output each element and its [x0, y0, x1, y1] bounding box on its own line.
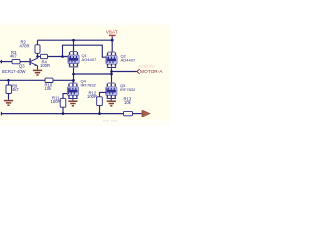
node junction Q1 drain	[72, 73, 75, 76]
svg-text:100R: 100R	[40, 63, 50, 68]
wire: top VBAT rail	[38, 39, 112, 41]
resistor R12	[97, 97, 103, 106]
svg-text:AO4407: AO4407	[82, 57, 97, 62]
wire: Q4 gate to R11	[63, 94, 67, 99]
wire: R13 to arrow port	[133, 113, 142, 115]
power port arrow	[142, 110, 143, 117]
svg-text:Designator: Designator	[139, 65, 156, 69]
wire: R4 to Q1 gate	[48, 56, 69, 58]
wire: bridge link	[74, 73, 112, 75]
mosfet Q5 IRF7832	[106, 83, 117, 99]
node junction R2/R4/Q3 collector	[36, 55, 39, 58]
transistor Q3 BCR17-40W	[29, 58, 30, 65]
node junction R10/drain	[72, 79, 75, 82]
wire: Q5 gate to R12	[100, 92, 106, 96]
svg-text:470R: 470R	[20, 43, 30, 48]
svg-text:10k: 10k	[124, 100, 132, 105]
node junction R11 bus	[62, 112, 65, 115]
svg-text:4k7: 4k7	[12, 87, 19, 92]
wire: input to Q3 base	[0, 61, 12, 63]
svg-text:100R: 100R	[51, 99, 61, 104]
node junction R9	[7, 79, 10, 82]
mosfet Q1 AO4407	[68, 51, 79, 67]
resistor R9	[8, 80, 10, 85]
svg-text:100R: 100R	[87, 94, 97, 99]
ground under Q3	[33, 70, 42, 75]
resistor R10	[45, 78, 53, 82]
wire: rail to Q1 source	[73, 40, 75, 51]
ground under R9	[4, 101, 13, 106]
node junction Q2 drain link	[110, 73, 113, 76]
sheet background	[0, 0, 170, 150]
node junction rail/VBAT	[111, 39, 114, 42]
resistor R13	[124, 111, 133, 115]
wire: gate riser to Q2 gate	[63, 45, 106, 57]
resistor R2	[35, 45, 40, 54]
resistor R4	[41, 54, 48, 58]
svg-text:BCR17-40W: BCR17-40W	[2, 69, 26, 74]
node junction motor wire	[110, 70, 113, 73]
svg-text:4k7: 4k7	[10, 54, 17, 59]
wire: Q2 drain down to Q5	[111, 68, 113, 82]
wire: R2 top lead	[37, 40, 39, 45]
svg-text:IRF7832: IRF7832	[120, 87, 136, 92]
mosfet Q2 AO4407	[106, 52, 117, 68]
wire: Q1 drain down to Q4	[73, 68, 75, 83]
wire: R3 to base	[20, 61, 29, 63]
mosfet Q4 IRF7832	[72, 80, 74, 82]
resistor R11	[60, 98, 66, 107]
node junction gate riser	[61, 55, 64, 58]
wire: R2 bottom lead	[37, 53, 39, 56]
node junction R12 bus	[98, 112, 101, 115]
wire: VBAT to Q2 source	[111, 36, 113, 52]
ground under Q4	[72, 99, 74, 100]
wire: junction to R4	[38, 56, 41, 58]
svg-text:10k: 10k	[45, 86, 53, 91]
resistor R3	[12, 59, 20, 63]
port MOTOR-A	[137, 69, 140, 74]
wire: R10 net	[0, 79, 45, 81]
svg-text:VBAT: VBAT	[106, 29, 118, 34]
svg-text:AO4407: AO4407	[121, 58, 136, 63]
svg-text:MOTOR-A: MOTOR-A	[140, 69, 163, 75]
node junction rail/Q1 source	[72, 39, 75, 42]
svg-text:IRF7832: IRF7832	[81, 82, 97, 87]
wire: R10 to Q1 drain line	[53, 79, 74, 81]
wire: ground bus	[1, 113, 124, 115]
ground under Q5	[110, 99, 112, 100]
wire: motor output	[112, 71, 137, 73]
